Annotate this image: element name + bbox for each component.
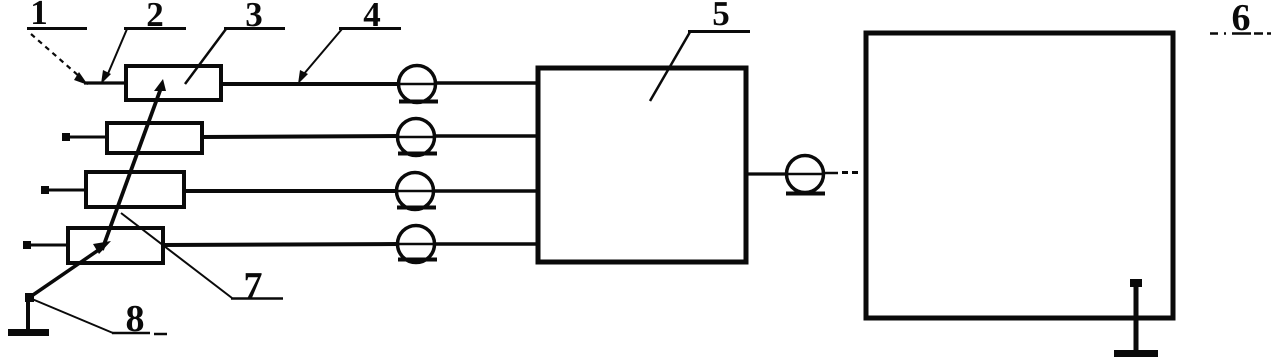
wire from P5 to block 6 (partly dashed) xyxy=(824,171,862,174)
block 5 xyxy=(538,68,746,262)
ground lead wire xyxy=(26,299,30,331)
wire row2 from R2 to indicator P2 xyxy=(202,136,398,137)
label 3 xyxy=(224,0,285,34)
indicator P1 (circle) xyxy=(398,66,438,103)
svg-text:7: 7 xyxy=(244,265,263,307)
input terminal dot row2 xyxy=(62,133,70,141)
input terminal dot row4 xyxy=(23,241,31,249)
wire row1 left (input to R1) xyxy=(84,81,126,84)
ganged slider arrow segment A (from ground node through R4) xyxy=(30,241,111,297)
wire row3 from P3 to box 5 xyxy=(434,189,538,193)
resistor box R1 xyxy=(126,66,221,100)
leader line from label 4 with arrowhead xyxy=(298,29,342,84)
ganged slider arrow segment B (through R4,R3,R2 into R1, arrowhead) xyxy=(102,79,166,250)
antenna/ground symbol at block 6 bottom xyxy=(1114,279,1158,354)
label 4 xyxy=(339,0,401,34)
wire row3 left (input to R3) xyxy=(45,189,86,192)
leader line from label 2 with arrowhead xyxy=(101,29,127,84)
wire from block 5 to indicator P5 xyxy=(748,172,787,175)
input terminal dot row3 xyxy=(41,186,49,194)
label 2 xyxy=(124,0,186,34)
resistor box R3 xyxy=(86,172,184,207)
ground node junction dot xyxy=(25,293,34,302)
label 7 xyxy=(231,265,283,307)
label 5 xyxy=(688,0,750,33)
wire row2 left (input to R2) xyxy=(66,136,107,139)
wire row1 from R1 to indicator P1 xyxy=(221,82,398,86)
resistor box R2 xyxy=(107,123,202,153)
wire row4 from R4 to indicator P4 xyxy=(163,244,398,245)
svg-text:5: 5 xyxy=(712,0,730,33)
indicator P5 (circle) xyxy=(786,156,825,194)
leader line from label 8 xyxy=(32,299,113,333)
block 6 xyxy=(866,33,1173,318)
label 8 xyxy=(112,298,167,340)
wire row3 from R3 to indicator P3 xyxy=(184,189,397,193)
resistor box R4 xyxy=(68,228,163,263)
wire row2 from P2 to box 5 xyxy=(435,134,538,138)
indicator P2 (circle) xyxy=(397,119,437,156)
leader line from label 3 xyxy=(185,29,226,84)
wire row4 from P4 to box 5 xyxy=(435,242,538,246)
label 6 xyxy=(1210,0,1271,39)
wire row4 left (input to R4) xyxy=(27,244,68,247)
ground symbol bar xyxy=(8,329,49,336)
wire row1 from P1 to box 5 xyxy=(436,81,538,85)
leader line from label 1 (dashed with arrowhead) xyxy=(31,34,88,85)
indicator P3 (circle) xyxy=(396,173,436,210)
leader line from label 5 xyxy=(650,32,690,101)
label 1 xyxy=(27,0,87,32)
indicator P4 (circle) xyxy=(397,226,437,263)
leader line from label 7 xyxy=(121,213,232,298)
